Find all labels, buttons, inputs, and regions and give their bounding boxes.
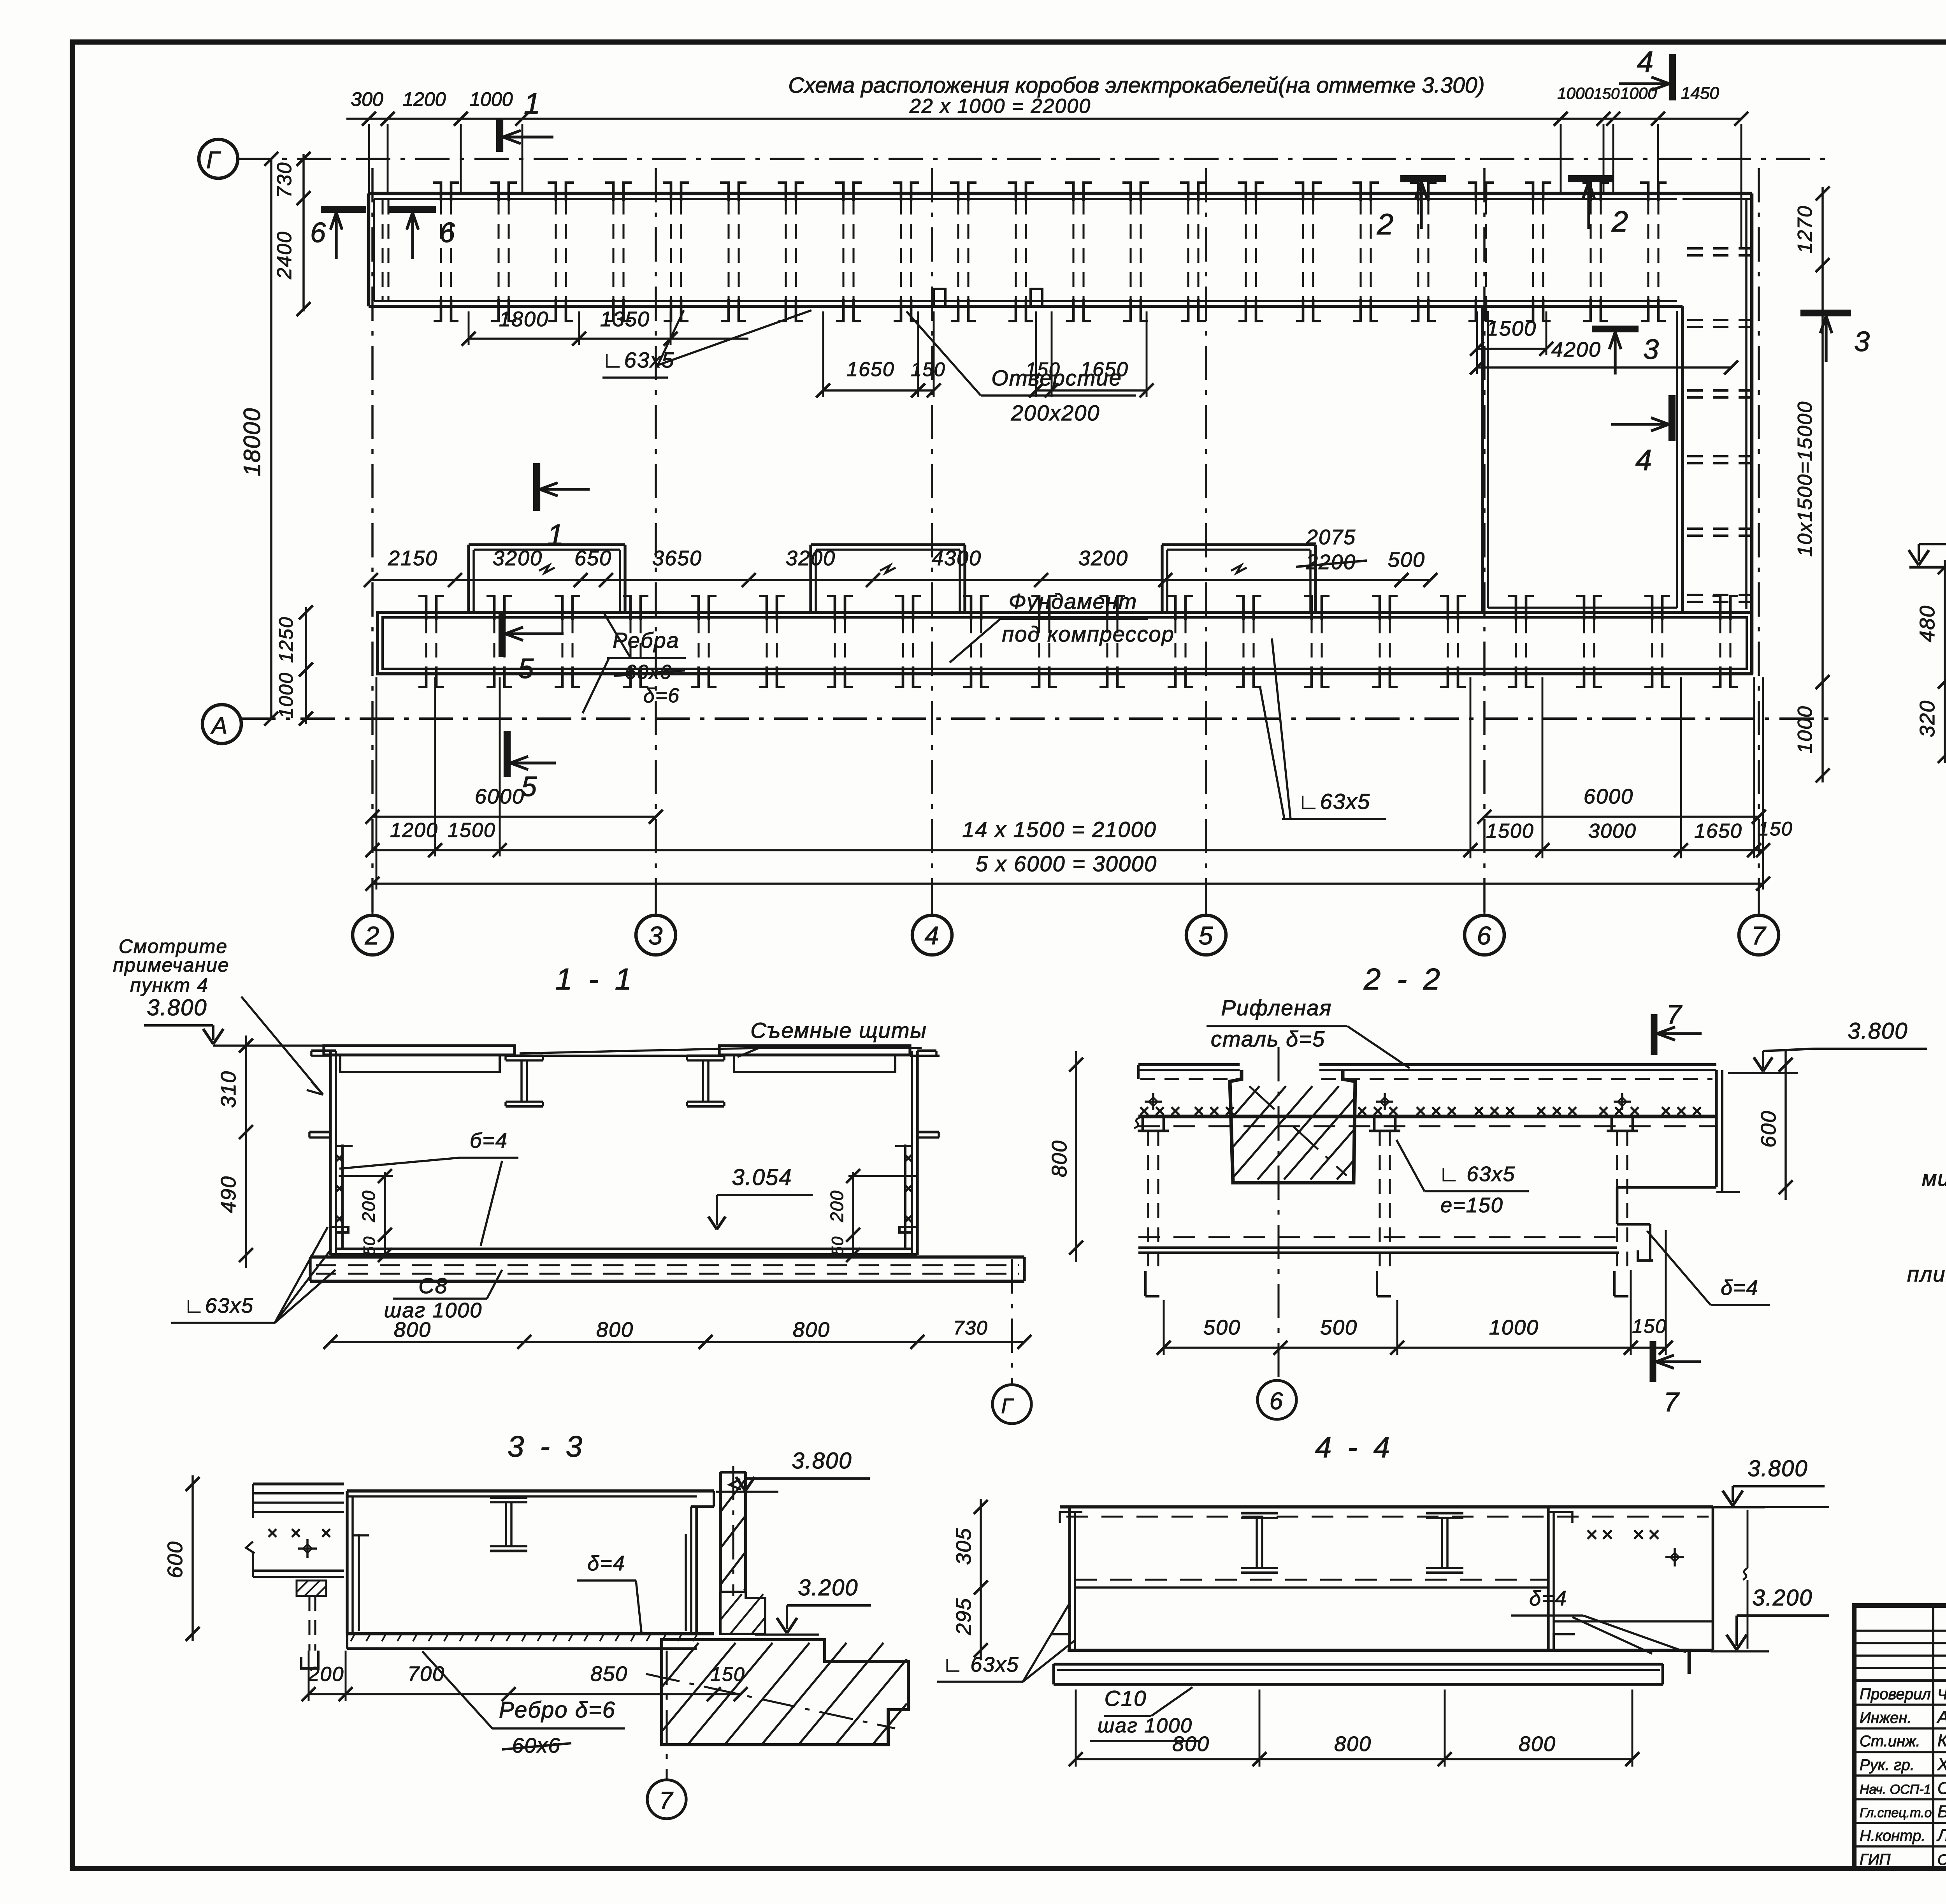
svg-text:3650: 3650 — [652, 547, 702, 570]
4-4 duct bottom and slab — [1068, 1649, 1713, 1652]
3-3 wall notch step — [720, 1592, 765, 1634]
svg-text:310: 310 — [217, 1071, 240, 1108]
svg-text:1000: 1000 — [469, 88, 513, 110]
vertical grid axes 2-7 — [371, 168, 374, 914]
svg-text:1000: 1000 — [275, 672, 297, 718]
4-4 mid lines — [1075, 1579, 1548, 1581]
section mark 5 (upper) — [504, 731, 511, 777]
svg-text:Ст.инж.: Ст.инж. — [1860, 1733, 1920, 1750]
section marks 2 — [1400, 175, 1446, 182]
6-6 top slab line — [1909, 566, 1946, 568]
svg-text:480: 480 — [1916, 605, 1939, 642]
svg-text:δ=4: δ=4 — [587, 1552, 625, 1575]
grid axis circle G — [199, 139, 238, 178]
svg-text:600: 600 — [1757, 1110, 1780, 1148]
svg-text:под компрессор: под компрессор — [1002, 622, 1174, 646]
svg-text:сталь δ=5: сталь δ=5 — [1211, 1027, 1325, 1051]
1-1 dims 310/490 — [245, 1036, 247, 1268]
svg-text:300: 300 — [351, 88, 383, 110]
lower cable duct outline — [378, 612, 1752, 674]
svg-text:4: 4 — [1635, 444, 1653, 477]
3-3 foundation block (hatched) — [662, 1640, 908, 1745]
4-4 I-beams — [1241, 1512, 1278, 1515]
svg-text:Г: Г — [1001, 1394, 1014, 1418]
svg-text:ми Э42 по ГОСТ 9467-75.: ми Э42 по ГОСТ 9467-75. — [1922, 1166, 1946, 1190]
dim 1500 / 4200 and right room dims — [1477, 348, 1546, 350]
4-4 duct top — [1060, 1505, 1713, 1508]
svg-text:е=150: е=150 — [1440, 1194, 1503, 1217]
dashed duct stubs at right wall — [1687, 247, 1752, 250]
left side vertical dims 18000 / 730 / 2400 / 1250 / 1000 — [270, 159, 272, 719]
svg-text:7: 7 — [1667, 999, 1683, 1030]
3-3 trough walls — [347, 1489, 714, 1493]
svg-text:4200: 4200 — [1551, 338, 1601, 361]
4-4 left channel — [1068, 1507, 1071, 1650]
svg-text:Проверил: Проверил — [1860, 1686, 1931, 1703]
4-4 right channel — [1547, 1507, 1549, 1650]
upper cable duct outline — [369, 192, 1752, 195]
svg-text:650: 650 — [574, 547, 612, 570]
svg-text:δ=4: δ=4 — [1721, 1276, 1759, 1299]
svg-text:1800: 1800 — [499, 308, 549, 331]
svg-text:1650: 1650 — [1694, 820, 1742, 842]
svg-text:А: А — [211, 712, 228, 738]
svg-text:18000: 18000 — [239, 408, 265, 476]
svg-text:800: 800 — [1048, 1140, 1071, 1177]
machine room enclosure (right) — [1481, 306, 1484, 612]
2-2 hanging angle studs — [1142, 1116, 1144, 1131]
svg-text:490: 490 — [217, 1176, 240, 1213]
svg-text:1650: 1650 — [847, 358, 895, 381]
svg-text:1450: 1450 — [1681, 84, 1719, 103]
title block inner grid - left signature table — [1854, 1630, 1946, 1632]
4-4 right extension — [1712, 1507, 1714, 1650]
svg-text:150: 150 — [1594, 85, 1620, 102]
dim rows 1650/150 at duct holes — [823, 389, 934, 392]
lower duct rungs — [425, 619, 427, 668]
extra first rung pair at duct left end — [381, 200, 383, 300]
2-2 concrete pedestal (hatched) — [1230, 1070, 1355, 1183]
svg-text:2: 2 — [1377, 208, 1394, 241]
svg-text:1350: 1350 — [600, 308, 650, 331]
svg-text:150: 150 — [1632, 1315, 1667, 1337]
2-2 dim 800 — [1075, 1051, 1077, 1262]
1-1 left wall — [329, 1051, 332, 1255]
svg-text:δ=6: δ=6 — [643, 684, 680, 707]
svg-text:7: 7 — [1751, 921, 1767, 950]
mid dimension chain 2150..500 — [371, 579, 1430, 581]
svg-text:3200: 3200 — [493, 547, 543, 570]
svg-text:примечание: примечание — [113, 954, 229, 976]
svg-text:305: 305 — [952, 1528, 975, 1565]
svg-text:6000: 6000 — [1584, 785, 1633, 808]
upper duct rungs (dashed stiffener pairs) — [440, 200, 442, 300]
svg-text:1000: 1000 — [1620, 84, 1657, 102]
svg-text:∟63х5: ∟63х5 — [1298, 789, 1370, 814]
svg-text:800: 800 — [1519, 1732, 1556, 1756]
svg-text:3.200: 3.200 — [1752, 1585, 1813, 1610]
svg-text:200: 200 — [358, 1190, 379, 1223]
svg-text:1500: 1500 — [448, 819, 496, 842]
4-4 bottom dims 800x3 — [1076, 1758, 1632, 1760]
svg-text:Ребро δ=6: Ребро δ=6 — [499, 1697, 616, 1723]
extension lines for top dims — [368, 124, 370, 193]
svg-text:800: 800 — [793, 1318, 830, 1341]
3-3 wall above (hatched) — [719, 1472, 722, 1592]
1-1 bottom slab with channels — [310, 1255, 1024, 1259]
2-2 ground line with anchors — [1138, 1115, 1716, 1118]
svg-text:2: 2 — [365, 921, 380, 950]
svg-text:500: 500 — [1203, 1316, 1241, 1339]
svg-text:22 х 1000 = 22000: 22 х 1000 = 22000 — [909, 95, 1091, 118]
svg-text:∟ 63х5: ∟ 63х5 — [1439, 1162, 1516, 1186]
svg-text:700: 700 — [407, 1662, 445, 1686]
svg-text:∟63х5: ∟63х5 — [184, 1294, 254, 1317]
3-3 left support detail — [294, 1576, 329, 1578]
4-4 right level extension line — [1747, 1510, 1749, 1568]
svg-text:4: 4 — [925, 921, 940, 950]
6-6 dims 480/320 — [1944, 560, 1946, 763]
svg-text:3 - 3: 3 - 3 — [508, 1430, 586, 1463]
1-1 corner angles — [330, 1227, 348, 1232]
svg-text:3200: 3200 — [1078, 547, 1128, 570]
svg-text:730: 730 — [953, 1317, 988, 1339]
svg-text:Саакьянц: Саакьянц — [1937, 1779, 1946, 1798]
svg-text:С8: С8 — [418, 1273, 448, 1298]
dim row 1800/1350 — [469, 338, 748, 340]
1-1 duct bottom — [336, 1248, 912, 1250]
svg-text:Андреева: Андреева — [1936, 1708, 1946, 1727]
3-3 dim 600 — [191, 1475, 194, 1641]
svg-text:600: 600 — [163, 1541, 187, 1578]
svg-text:Гл.спец.т.о: Гл.спец.т.о — [1860, 1806, 1932, 1820]
svg-text:730: 730 — [273, 162, 296, 198]
svg-text:Нач. ОСП-1: Нач. ОСП-1 — [1860, 1782, 1931, 1797]
3-3 left slab stack — [253, 1482, 344, 1485]
svg-text:800: 800 — [394, 1318, 431, 1341]
1-1 I-beams — [506, 1055, 543, 1057]
svg-text:1: 1 — [547, 519, 564, 552]
svg-text:1200: 1200 — [390, 819, 438, 842]
svg-text:2075: 2075 — [1306, 526, 1356, 549]
extension lines bottom rows — [434, 677, 436, 856]
svg-text:Луценко: Луценко — [1936, 1826, 1946, 1845]
svg-text:3.054: 3.054 — [732, 1165, 792, 1190]
svg-text:ГИП: ГИП — [1860, 1851, 1891, 1868]
svg-text:3200: 3200 — [786, 547, 836, 570]
grid axis line G (horizontal) — [238, 158, 1829, 160]
svg-text:295: 295 — [952, 1598, 975, 1635]
section marks 6 (in upper duct) — [321, 206, 366, 213]
svg-text:1 - 1: 1 - 1 — [555, 962, 636, 996]
svg-text:1000: 1000 — [1557, 84, 1594, 102]
1-1 right wall — [916, 1051, 919, 1255]
svg-text:пункт 4: пункт 4 — [130, 974, 209, 996]
section mark 4 (lower) — [1669, 395, 1676, 441]
1-1 inner dims 200/50 (left) — [384, 1172, 386, 1256]
bottom dim row C 5x6000=30000 — [372, 883, 1763, 885]
svg-text:50: 50 — [828, 1236, 847, 1256]
svg-text:800: 800 — [1334, 1732, 1372, 1756]
svg-text:1000: 1000 — [1489, 1316, 1539, 1339]
svg-text:200: 200 — [827, 1190, 847, 1223]
svg-text:1: 1 — [524, 87, 541, 120]
svg-text:200х200: 200х200 — [1011, 401, 1100, 425]
svg-text:∟ 63х5: ∟ 63х5 — [943, 1653, 1019, 1676]
svg-text:5: 5 — [518, 653, 534, 684]
3-3 trough bottom with floor hatch — [347, 1632, 714, 1635]
svg-text:4300: 4300 — [932, 547, 982, 570]
svg-text:2: 2 — [1611, 205, 1629, 238]
svg-text:3000: 3000 — [1588, 820, 1637, 842]
1-1 removable covers — [324, 1046, 515, 1055]
svg-text:Н.контр.: Н.контр. — [1860, 1827, 1925, 1844]
svg-text:Боярченко: Боярченко — [1937, 1802, 1946, 1821]
svg-text:1500: 1500 — [1487, 317, 1537, 340]
3-3 axis circle 7 — [666, 1651, 667, 1779]
2-2 section mark 7 (top) — [1651, 1014, 1657, 1055]
svg-text:Схема расположения коробов эле: Схема расположения коробов электрокабеле… — [788, 73, 1484, 98]
svg-text:плит перекрытия.: плит перекрытия. — [1907, 1262, 1946, 1286]
svg-text:Коротенко: Коротенко — [1937, 1731, 1946, 1750]
svg-text:5 х 6000 = 30000: 5 х 6000 = 30000 — [976, 851, 1157, 876]
svg-text:Осташевский: Осташевский — [1937, 1852, 1946, 1868]
svg-text:Чернявская: Чернявская — [1937, 1686, 1946, 1703]
svg-text:150: 150 — [911, 359, 945, 380]
building right wall — [1750, 193, 1754, 674]
2-2 section mark 7 (bottom) — [1649, 1341, 1656, 1382]
2-2 duct bottom lines — [1138, 1236, 1617, 1238]
svg-text:7: 7 — [1664, 1387, 1680, 1417]
grid axis circle A — [202, 705, 241, 744]
svg-text:3.200: 3.200 — [798, 1575, 858, 1600]
svg-text:1250: 1250 — [275, 616, 297, 663]
svg-text:2150: 2150 — [388, 547, 438, 570]
svg-text:5: 5 — [1199, 921, 1214, 950]
grid axis line A (horizontal) — [241, 717, 1829, 720]
section mark 1 (lower) — [533, 463, 540, 511]
right side vertical dims 1270 / 10x1500=15000 / 1000 — [1821, 187, 1824, 782]
3-3 bottom dims 200/700/850/150 — [309, 1693, 741, 1695]
section mark 5 (at foundation box) — [499, 611, 506, 657]
svg-text:50: 50 — [360, 1236, 378, 1256]
bottom dim row B 1200/1500/14x1500/1500/3000/1650/150 — [372, 849, 1763, 851]
svg-text:14 х 1500 = 21000: 14 х 1500 = 21000 — [962, 817, 1157, 842]
svg-text:3: 3 — [1854, 326, 1870, 357]
1-1 bottom dims 800/800/800/730 — [330, 1341, 1024, 1343]
1-1 axis circle G — [1011, 1259, 1013, 1384]
svg-text:800: 800 — [596, 1318, 634, 1341]
svg-text:3: 3 — [1643, 334, 1660, 365]
2-2 axis circle 6 — [1258, 1380, 1296, 1419]
svg-text:500: 500 — [1388, 548, 1425, 571]
svg-text:2400: 2400 — [273, 231, 296, 280]
svg-text:1500: 1500 — [1486, 820, 1534, 842]
svg-text:6: 6 — [439, 217, 456, 248]
svg-text:850: 850 — [590, 1662, 628, 1686]
2-2 dim 600 — [1784, 1051, 1787, 1200]
svg-text:200: 200 — [308, 1663, 344, 1686]
svg-text:800: 800 — [1172, 1732, 1210, 1756]
2-2 bottom dims 500/500/1000/150 — [1164, 1347, 1666, 1349]
svg-text:Ребра: Ребра — [613, 628, 680, 652]
section mark 1 (top) — [496, 119, 503, 152]
1-1 inner dims 200/50 (right) — [852, 1172, 854, 1256]
svg-text:1000: 1000 — [1794, 705, 1816, 754]
top dimension row 300/1200/1000 ... 22x1000=22000 ... 1000/150/1000/1450 — [346, 118, 1741, 120]
svg-text:10х1500=15000: 10х1500=15000 — [1794, 401, 1816, 557]
svg-text:Рук. гр.: Рук. гр. — [1860, 1756, 1914, 1774]
bottom dim row A 6000|6000 — [372, 816, 656, 818]
svg-text:Фундамент: Фундамент — [1009, 589, 1137, 614]
svg-text:3.800: 3.800 — [1748, 1456, 1808, 1481]
svg-text:Г: Г — [206, 147, 221, 174]
svg-text:1200: 1200 — [402, 88, 446, 110]
svg-text:6: 6 — [1270, 1388, 1284, 1415]
svg-text:3.800: 3.800 — [792, 1448, 852, 1473]
2-2 top riffled plate — [1138, 1063, 1240, 1066]
section marks 3 — [1592, 325, 1639, 332]
svg-text:Инжен.: Инжен. — [1860, 1709, 1912, 1726]
svg-text:Рифленая: Рифленая — [1221, 995, 1332, 1020]
duct holes 200x200 markers — [934, 289, 945, 306]
svg-text:6: 6 — [310, 217, 327, 248]
svg-text:320: 320 — [1916, 700, 1939, 737]
svg-text:Отверстие: Отверстие — [991, 366, 1122, 390]
svg-text:3: 3 — [648, 921, 664, 950]
svg-text:Ханин: Ханин — [1937, 1755, 1946, 1774]
svg-text:б=4: б=4 — [470, 1129, 508, 1152]
svg-text:7: 7 — [659, 1787, 674, 1814]
svg-text:Съемные щиты: Съемные щиты — [750, 1018, 927, 1043]
svg-text:4: 4 — [1637, 46, 1654, 79]
title block outer frame — [1854, 1605, 1946, 1869]
svg-text:150: 150 — [710, 1663, 745, 1685]
2-2 right step — [1617, 1186, 1716, 1188]
3-3 I-beam — [490, 1496, 527, 1499]
svg-text:3.800: 3.800 — [1848, 1018, 1908, 1044]
svg-text:δ=4: δ=4 — [1529, 1587, 1567, 1610]
svg-text:3.800: 3.800 — [147, 995, 207, 1020]
svg-text:4 - 4: 4 - 4 — [1315, 1431, 1394, 1464]
grid circles 2-7 — [353, 915, 392, 955]
svg-text:2 - 2: 2 - 2 — [1363, 962, 1444, 996]
svg-text:1270: 1270 — [1794, 205, 1816, 253]
4-4 dims 305/295 — [980, 1499, 982, 1658]
svg-text:500: 500 — [1320, 1316, 1358, 1339]
svg-text:6: 6 — [1477, 921, 1492, 950]
compressor foundation outlines (plan) — [469, 543, 625, 546]
svg-text:С10: С10 — [1105, 1686, 1147, 1711]
section mark 4 (top) — [1669, 54, 1676, 100]
